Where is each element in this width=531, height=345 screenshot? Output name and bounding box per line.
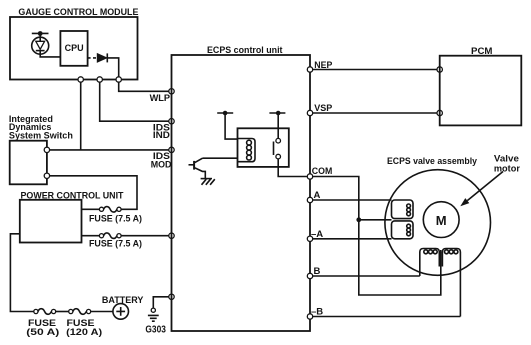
switch terminal upper: [44, 147, 49, 152]
svg-text:BATTERY: BATTERY: [102, 295, 144, 306]
wire -B: [313, 316, 461, 318]
svg-text:COM: COM: [312, 166, 333, 177]
relay K1 box: [238, 128, 289, 167]
junction dot COM tap: [356, 217, 361, 222]
indicator LED lamp: [32, 37, 49, 54]
gauge module pin 1: [78, 77, 83, 82]
wire B: [313, 275, 420, 277]
valve coil A (upper left): [392, 200, 414, 219]
svg-text:G303: G303: [145, 324, 166, 336]
power feed T-bar above lamp: [32, 31, 49, 37]
valve coil -A (lower left): [392, 221, 414, 239]
CPU U1: [60, 31, 87, 66]
valve motor label and arrow: [460, 153, 520, 206]
svg-text:System Switch: System Switch: [9, 130, 73, 141]
svg-text:PCM: PCM: [471, 46, 493, 57]
svg-text:(50 A): (50 A): [26, 327, 59, 338]
gauge module pin 3: [116, 77, 121, 82]
svg-text:(120 A): (120 A): [66, 327, 102, 338]
WLP terminal: [169, 89, 174, 94]
ground G303: [145, 308, 166, 336]
svg-text:NEP: NEP: [314, 60, 333, 71]
B terminal: [307, 273, 312, 278]
integrated dynamics system switch box: [9, 114, 73, 184]
svg-text:–B: –B: [311, 307, 323, 318]
svg-text:VSP: VSP: [314, 103, 333, 114]
relay power T-bar left: [217, 111, 237, 139]
wire A: [313, 199, 392, 201]
ECPS valve assembly circle: [385, 156, 491, 275]
gauge control module box: [10, 7, 138, 80]
wire IDS MOD: [50, 149, 172, 151]
svg-text:FUSE (7.5 A): FUSE (7.5 A): [89, 239, 142, 250]
switch terminal lower: [44, 173, 49, 178]
label IDS IND: [153, 122, 170, 141]
wire WLP: [119, 82, 172, 91]
ECPS ground terminal: [169, 294, 174, 299]
wire COM tap to left coil pair: [359, 219, 392, 221]
relay coil: [238, 139, 256, 162]
svg-text:A: A: [314, 190, 321, 201]
wire -A: [313, 238, 392, 240]
svg-text:FUSE (7.5 A): FUSE (7.5 A): [89, 214, 142, 225]
label IDS MOD: [151, 151, 172, 170]
diode D1: [97, 53, 107, 62]
svg-text:POWER CONTROL UNIT: POWER CONTROL UNIT: [21, 191, 124, 202]
NEP terminal (PCM): [437, 67, 442, 72]
fuse F3 50A: [26, 309, 68, 338]
svg-text:–A: –A: [311, 229, 323, 240]
ECPS control unit box: [172, 45, 311, 331]
wire relay contact to COM: [278, 159, 307, 177]
wire transistor collector to relay coil: [203, 157, 238, 159]
chassis ground at transistor: [201, 179, 215, 185]
-A terminal: [307, 236, 312, 241]
ECPS +B terminal: [169, 233, 174, 238]
svg-text:M: M: [436, 213, 447, 228]
-B terminal: [307, 314, 312, 319]
wire COM to coil center taps: [313, 177, 441, 296]
wire IDS IND: [100, 82, 172, 121]
relay power T-bar right: [269, 111, 285, 139]
A terminal: [307, 197, 312, 202]
valve motor M: [423, 202, 459, 238]
relay contact: [274, 138, 281, 159]
PCM box: [440, 46, 522, 125]
VSP terminal (ECPS): [307, 110, 312, 115]
transistor Q1: [189, 158, 206, 178]
valve coil -B (bottom right): [442, 249, 460, 317]
valve coil B (bottom left): [420, 249, 440, 277]
wire NEP: [313, 69, 437, 71]
battery B1: [102, 295, 144, 319]
wire diode to WLP terminal: [107, 58, 118, 80]
svg-text:CPU: CPU: [65, 43, 84, 54]
fuse F1 7.5A: [82, 207, 143, 225]
svg-text:motor: motor: [494, 164, 520, 175]
svg-text:ECPS valve assembly: ECPS valve assembly: [387, 156, 478, 167]
COM terminal: [307, 174, 312, 179]
wire PCU to battery line: [10, 234, 33, 312]
svg-text:MOD: MOD: [151, 159, 172, 170]
svg-text:IND: IND: [153, 130, 170, 141]
VSP terminal (PCM): [437, 110, 442, 115]
IDS IND terminal: [169, 119, 174, 124]
wire switch lower to fuse F1: [50, 176, 137, 210]
power control unit box: [20, 191, 124, 243]
fuse F2 7.5A: [82, 233, 172, 250]
wire VSP: [313, 112, 437, 114]
wire gauge pin1 down to IDS MOD net: [80, 82, 82, 150]
svg-text:WLP: WLP: [150, 93, 171, 104]
fuse F4 120A: [66, 309, 113, 338]
svg-text:GAUGE CONTROL MODULE: GAUGE CONTROL MODULE: [18, 7, 138, 18]
svg-text:B: B: [314, 266, 321, 277]
wire lamp to CPU: [40, 54, 60, 57]
dashed wire CPU to diode: [88, 57, 97, 59]
IDS MOD terminal: [169, 147, 174, 152]
wire to ground G303: [153, 297, 169, 308]
NEP terminal (ECPS): [307, 67, 312, 72]
svg-text:ECPS control unit: ECPS control unit: [207, 45, 283, 56]
gauge module pin 2: [97, 77, 102, 82]
